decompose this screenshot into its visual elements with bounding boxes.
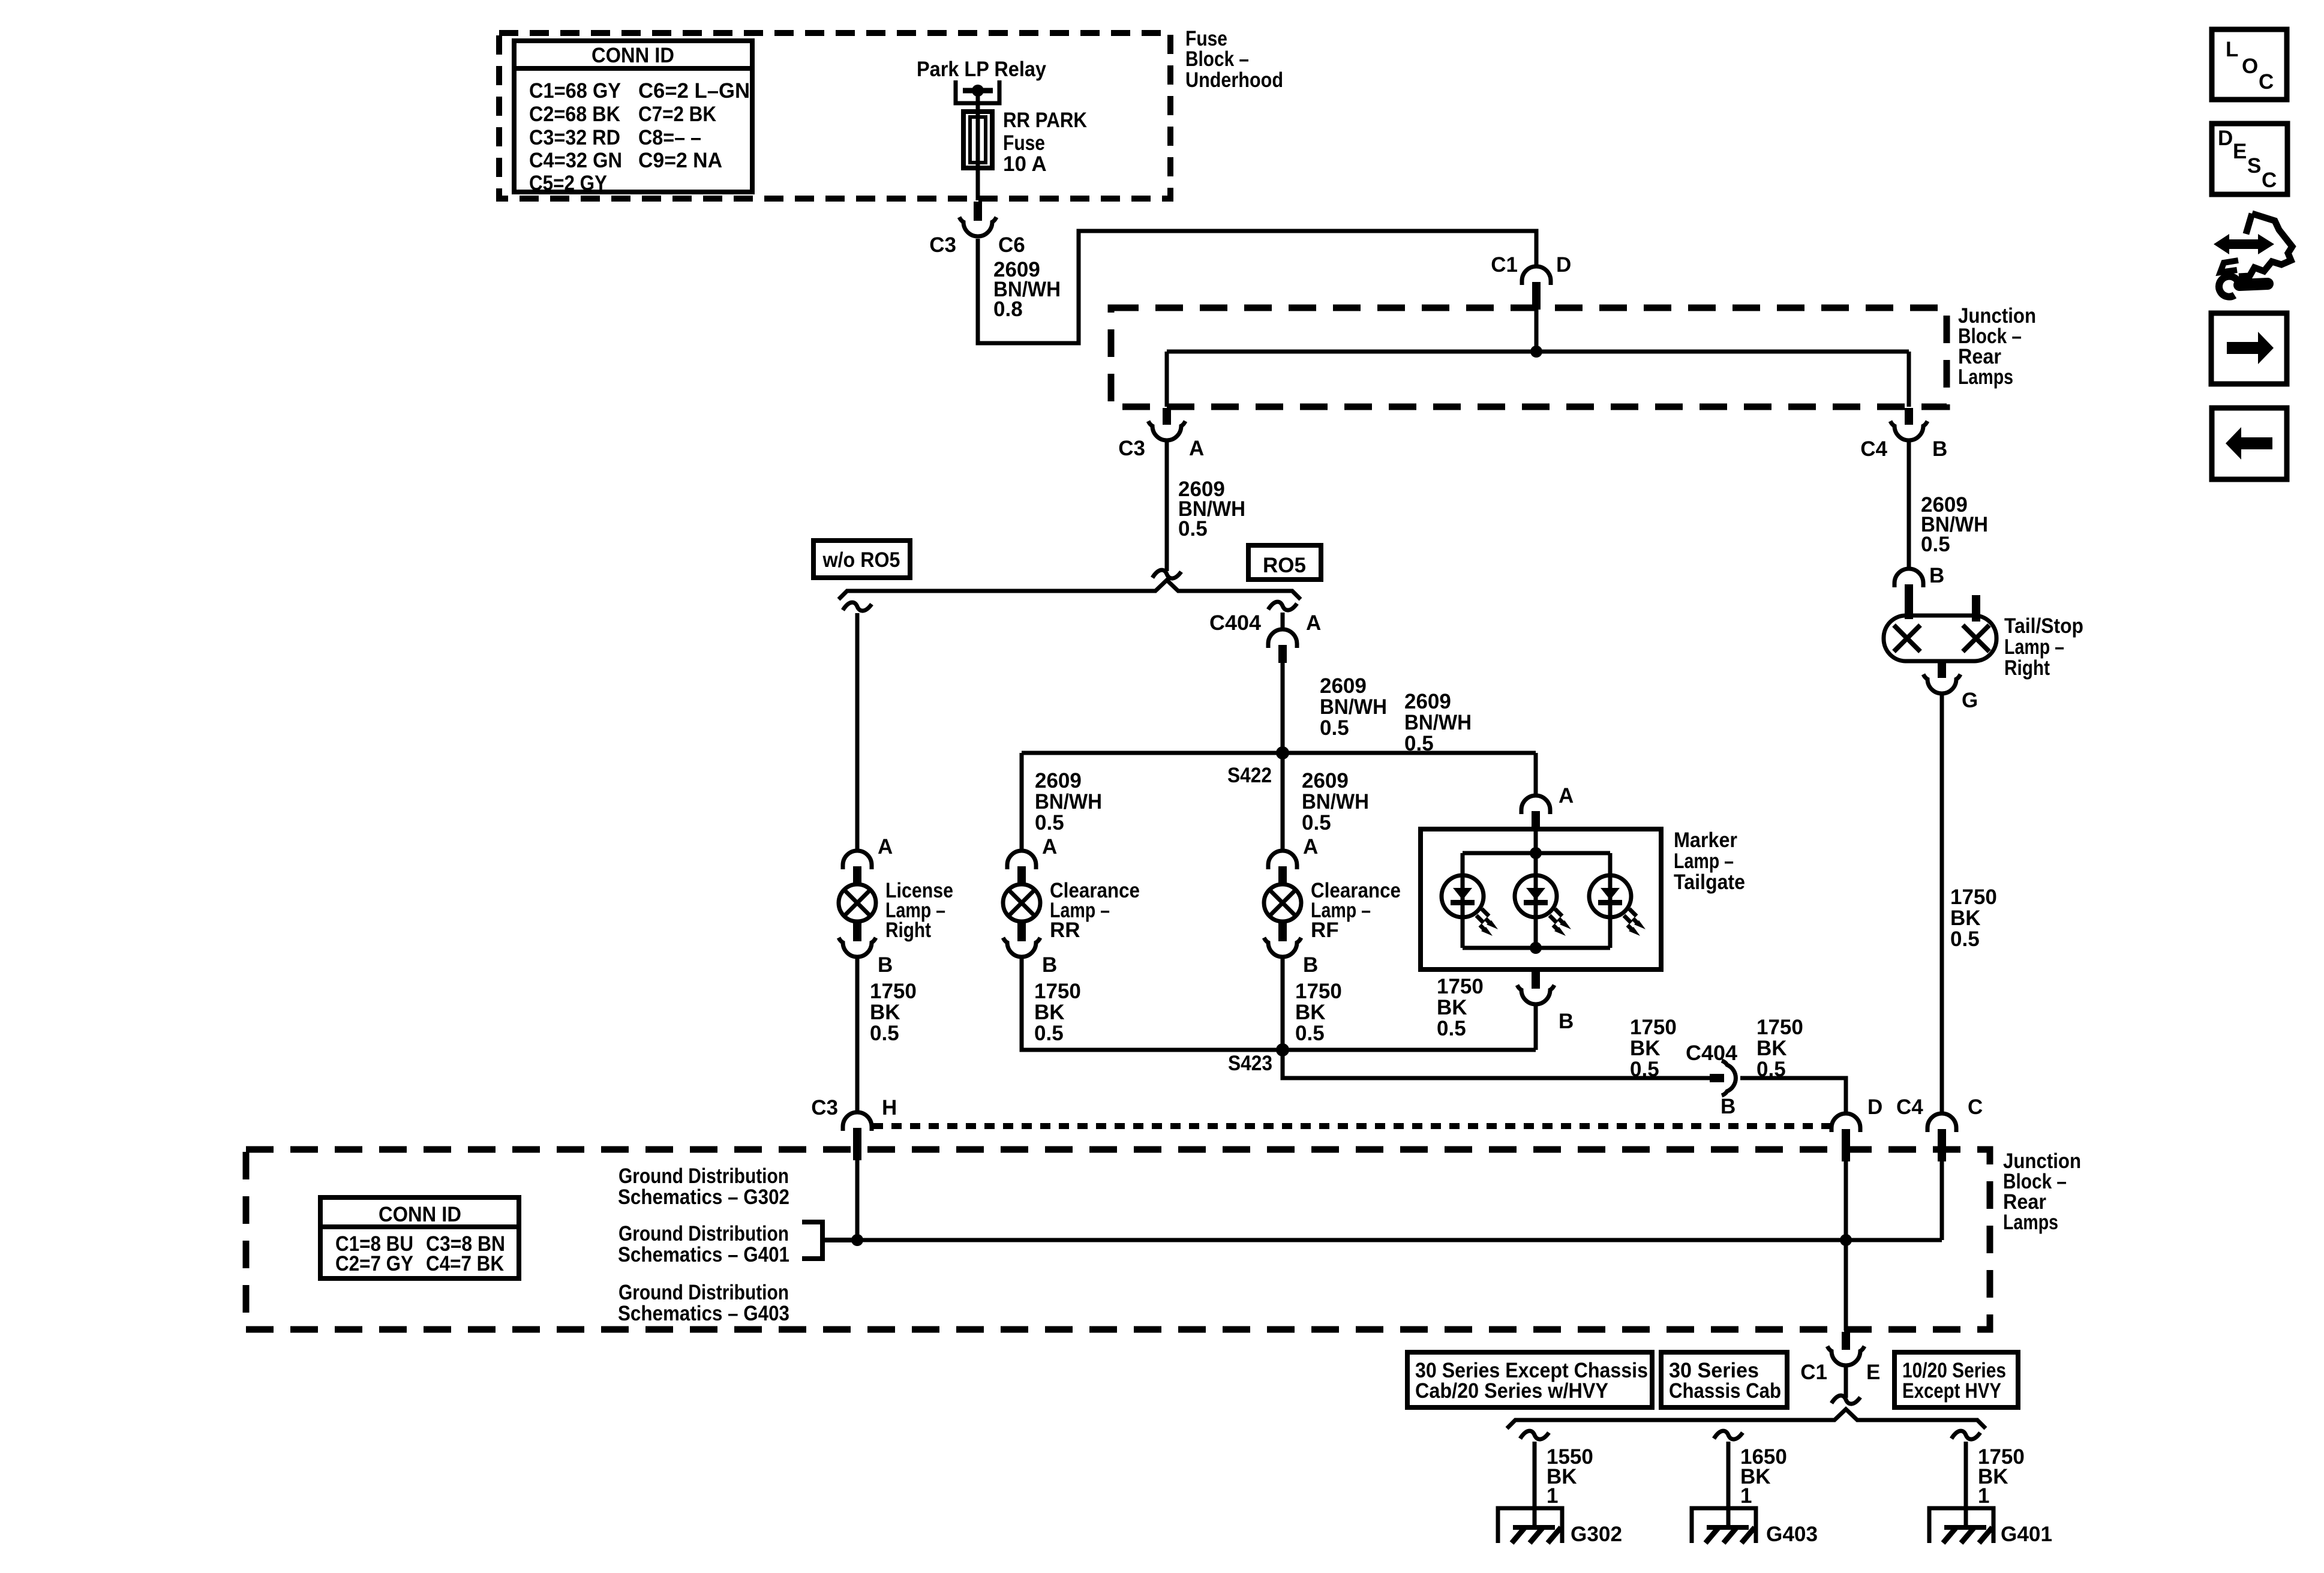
svg-text:C7=2 BK: C7=2 BK <box>638 103 716 126</box>
connector B arch <box>1894 569 1923 587</box>
svg-text:1750: 1750 <box>870 980 917 1003</box>
svg-text:S: S <box>2247 154 2261 178</box>
svg-text:BN/WH: BN/WH <box>1320 695 1387 719</box>
svg-text:B: B <box>1303 953 1318 977</box>
svg-text:D: D <box>1556 253 1571 277</box>
ground distribution G403 note <box>618 1281 789 1325</box>
service info icon (arrows wrench) <box>2214 214 2292 297</box>
wire label 2609 BN/WH 0.5 (marker feed) <box>1404 690 1472 755</box>
svg-text:BK: BK <box>1034 1001 1065 1024</box>
connector C3/A cup <box>1148 421 1185 440</box>
connector B cup <box>1517 985 1554 1004</box>
node bottom <box>1530 942 1542 954</box>
svg-text:CONN ID: CONN ID <box>591 44 674 67</box>
wire bus left leg to A pin <box>1165 352 1169 407</box>
svg-text:1: 1 <box>1978 1484 1989 1508</box>
svg-text:BK: BK <box>1295 1001 1326 1024</box>
marker lamp box <box>1421 829 1661 969</box>
wire marker feed <box>1534 753 1538 795</box>
connector B cup <box>839 938 876 957</box>
wire D pin into junction block <box>1535 310 1539 352</box>
svg-text:BN/WH: BN/WH <box>1035 790 1102 813</box>
w/o RO5 option box <box>813 541 910 578</box>
svg-text:0.5: 0.5 <box>1921 533 1950 556</box>
lamp label <box>885 879 953 942</box>
pin stub below <box>853 922 861 941</box>
node top <box>1530 847 1542 859</box>
option box 10/20 series except HVY <box>1894 1352 2018 1407</box>
wire C404/B to D pin <box>1740 1078 1846 1113</box>
svg-text:BK: BK <box>870 1001 900 1024</box>
ground G403 <box>1692 1508 1756 1543</box>
svg-text:Park LP Relay: Park LP Relay <box>917 58 1046 81</box>
pin stub below <box>1278 922 1287 941</box>
svg-text:RR: RR <box>1050 918 1080 942</box>
svg-text:1750: 1750 <box>1950 885 1997 909</box>
connector D arch <box>1831 1113 1860 1132</box>
pin stub <box>1905 584 1913 619</box>
wire RR B to S423 <box>1022 957 1283 1050</box>
wire label 1750 BK 0.5 <box>1295 980 1342 1045</box>
svg-text:2609: 2609 <box>1035 769 1082 792</box>
connector C arch <box>1927 1113 1956 1132</box>
svg-text:C1: C1 <box>1800 1361 1827 1384</box>
wire to ground <box>1727 1442 1731 1508</box>
svg-text:1750: 1750 <box>1756 1016 1803 1039</box>
DESC icon <box>2212 124 2287 194</box>
option brace w/o RO5 / RO5 <box>839 580 1301 599</box>
svg-text:0.5: 0.5 <box>1035 811 1064 834</box>
svg-text:C4: C4 <box>1896 1095 1923 1119</box>
svg-text:1750: 1750 <box>1630 1016 1677 1039</box>
connector C404/A arch <box>1268 629 1297 648</box>
connector pin stub (fuse block out) <box>974 202 982 221</box>
connector C3/H arch <box>843 1112 872 1131</box>
svg-text:10 A: 10 A <box>1003 152 1047 176</box>
wire C404/A to S422 <box>1281 663 1285 753</box>
svg-text:A: A <box>1189 437 1204 460</box>
svg-text:CONN ID: CONN ID <box>379 1203 461 1226</box>
pin stub <box>1532 811 1540 830</box>
svg-text:H: H <box>882 1096 897 1119</box>
GROUND BRANCH G302 <box>1498 1431 1622 1546</box>
svg-text:B: B <box>878 953 893 977</box>
svg-text:C3: C3 <box>811 1096 838 1119</box>
pin stub bottom <box>1938 660 1946 678</box>
svg-text:Except HVY: Except HVY <box>1902 1379 2001 1403</box>
svg-text:BN/WH: BN/WH <box>1404 711 1472 734</box>
svg-text:0.5: 0.5 <box>870 1022 899 1045</box>
svg-text:E: E <box>1866 1361 1880 1384</box>
pin stub C3/H <box>853 1128 861 1160</box>
svg-text:0.5: 0.5 <box>1756 1058 1786 1081</box>
svg-text:BN/WH: BN/WH <box>1302 790 1369 813</box>
svg-text:Lamp –: Lamp – <box>1674 849 1734 873</box>
svg-text:2609: 2609 <box>1302 769 1349 792</box>
wire label 2609 BN/WH 0.5 (RR) <box>1035 769 1102 834</box>
svg-text:2609: 2609 <box>1404 690 1451 713</box>
wire H pin to G401 bus <box>855 1160 860 1240</box>
svg-text:Ground Distribution: Ground Distribution <box>618 1281 789 1304</box>
splice S423 <box>1276 1043 1289 1056</box>
pin stub <box>1017 866 1026 885</box>
svg-text:C8=– –: C8=– – <box>638 126 701 149</box>
svg-text:2609: 2609 <box>1320 674 1367 698</box>
wire to ground <box>1964 1442 1968 1508</box>
connector C4/B cup <box>1890 421 1927 440</box>
wire S422 to clearance RR <box>1020 753 1024 851</box>
wire RF B to S423 <box>1281 957 1285 1050</box>
svg-text:1750: 1750 <box>1295 980 1342 1003</box>
ground G302 <box>1498 1508 1562 1543</box>
svg-text:Lamps: Lamps <box>1958 365 2013 389</box>
svg-text:BK: BK <box>1950 906 1981 930</box>
GROUND BRANCH G401 <box>1929 1431 2052 1546</box>
svg-text:B: B <box>1932 437 1947 461</box>
wire S422 bus <box>1022 751 1536 755</box>
svg-text:C1: C1 <box>1491 253 1518 277</box>
svg-text:C6=2 L–GN: C6=2 L–GN <box>638 79 750 103</box>
lamp symbol license lamp right <box>839 884 876 921</box>
wire break curl (right branch) <box>1268 602 1297 610</box>
CONN ID table (fuse block) <box>514 41 752 195</box>
svg-text:0.5: 0.5 <box>1630 1058 1659 1081</box>
svg-text:A: A <box>1303 835 1318 858</box>
svg-text:C5=2 GY: C5=2 GY <box>529 172 607 195</box>
wire C pin down <box>1940 1161 1944 1240</box>
forward arrow icon <box>2211 313 2287 384</box>
LED 1 <box>1442 875 1498 936</box>
ground option brace <box>1507 1409 1986 1428</box>
svg-text:C4: C4 <box>1860 437 1887 461</box>
svg-text:0.8: 0.8 <box>993 298 1023 321</box>
G401 ground bus <box>857 1238 1942 1242</box>
node H/G401 <box>851 1234 863 1246</box>
RO5 option box <box>1248 545 1321 580</box>
svg-text:Chassis Cab: Chassis Cab <box>1669 1379 1781 1403</box>
connector C1/D arch <box>1522 266 1551 285</box>
connector G cup <box>1923 674 1960 694</box>
svg-text:B: B <box>1721 1095 1736 1118</box>
wire E to brace <box>1844 1365 1848 1398</box>
fuse block underhood dashed box <box>499 33 1170 199</box>
wire break curl (left branch) <box>843 602 872 611</box>
svg-text:A: A <box>1042 835 1057 858</box>
svg-text:0.5: 0.5 <box>1320 716 1349 740</box>
connector B cup <box>1003 938 1040 957</box>
svg-text:G403: G403 <box>1766 1523 1818 1546</box>
svg-text:E: E <box>2233 140 2247 163</box>
CONN ID table (junction block) <box>320 1197 519 1278</box>
wire C4/B to lamp <box>1907 440 1911 569</box>
svg-text:D: D <box>2218 127 2233 150</box>
wire bus right leg to B pin <box>1907 352 1911 407</box>
junction block bottom label <box>2003 1149 2081 1234</box>
svg-text:0.5: 0.5 <box>1034 1022 1064 1045</box>
connector A arch <box>843 851 872 869</box>
LOC icon <box>2212 29 2287 100</box>
pin stub C4/B <box>1905 408 1913 425</box>
pin stub C404/B <box>1710 1074 1724 1082</box>
svg-text:Cab/20 Series w/HVY: Cab/20 Series w/HVY <box>1415 1379 1608 1403</box>
tail/stop lamp body <box>1884 616 1996 661</box>
svg-text:Fuse: Fuse <box>1003 131 1045 155</box>
svg-text:C: C <box>2262 169 2277 192</box>
pin stub C <box>1938 1129 1946 1161</box>
svg-text:Ground Distribution: Ground Distribution <box>618 1164 789 1188</box>
svg-text:C4=7 BK: C4=7 BK <box>426 1252 504 1275</box>
svg-text:C6: C6 <box>998 233 1025 257</box>
junction block top label <box>1958 304 2036 389</box>
wire label 1750 BK 0.5 <box>1756 1016 1803 1081</box>
svg-text:C404: C404 <box>1686 1041 1738 1065</box>
wire to C404/A <box>1281 613 1285 629</box>
wire label 1750 BK 0.5 <box>1034 980 1081 1045</box>
wire marker B to S423 bus <box>1534 1004 1538 1050</box>
svg-text:B: B <box>1559 1010 1574 1033</box>
svg-text:A: A <box>878 835 893 858</box>
svg-text:Marker: Marker <box>1674 828 1737 852</box>
svg-text:Schematics – G403: Schematics – G403 <box>618 1302 789 1325</box>
svg-text:C9=2 NA: C9=2 NA <box>638 149 722 172</box>
wire A drop to option brace <box>1165 440 1169 571</box>
wire label 1750 BK 0.5 (marker) <box>1437 975 1484 1040</box>
svg-text:0.5: 0.5 <box>1178 517 1208 541</box>
svg-text:1: 1 <box>1740 1484 1752 1508</box>
svg-text:0.5: 0.5 <box>1404 732 1434 755</box>
svg-text:1750: 1750 <box>1034 980 1081 1003</box>
svg-text:C1=68 GY: C1=68 GY <box>529 79 621 103</box>
svg-text:BK: BK <box>1437 996 1467 1019</box>
connector C1/E cup <box>1827 1346 1864 1365</box>
wire label 1750 BK 0.5 <box>1630 1016 1677 1081</box>
svg-text:Tailgate: Tailgate <box>1674 870 1745 894</box>
second filament pin <box>1972 595 1980 622</box>
lamp label <box>1050 879 1140 942</box>
option dotted wire C3/H to D <box>873 1123 1830 1129</box>
svg-text:0.5: 0.5 <box>1302 811 1331 834</box>
svg-text:Right: Right <box>885 918 931 942</box>
svg-text:Underhood: Underhood <box>1185 68 1283 92</box>
bus wire inside junction block <box>1167 350 1909 354</box>
LED 3 <box>1589 875 1646 936</box>
svg-text:A: A <box>1306 611 1321 635</box>
wire to ground <box>1533 1442 1537 1508</box>
connector C3/C6 cup <box>959 217 996 236</box>
node D/G401 <box>1840 1234 1852 1246</box>
junction block rear lamps (top) dashed box <box>1111 308 1947 407</box>
option box 30 series chassis cab <box>1661 1352 1787 1407</box>
lamp label <box>2004 614 2083 680</box>
svg-text:D: D <box>1867 1095 1882 1119</box>
svg-text:B: B <box>1929 564 1944 587</box>
splice S422 <box>1276 746 1289 760</box>
fuse block label <box>1185 27 1283 92</box>
svg-text:1: 1 <box>1547 1484 1558 1508</box>
svg-text:RO5: RO5 <box>1263 554 1306 577</box>
marker lamp bottom pin <box>1532 971 1540 989</box>
svg-text:RR PARK: RR PARK <box>1003 109 1087 132</box>
pin stub <box>1278 866 1287 885</box>
filament X right <box>1963 625 1989 652</box>
svg-text:G: G <box>1962 689 1978 712</box>
lamp label <box>1311 879 1401 942</box>
svg-text:RF: RF <box>1311 918 1339 942</box>
ground distribution G401 note <box>618 1222 789 1266</box>
connector A arch <box>1007 851 1036 869</box>
pin stub C404/A <box>1278 645 1287 663</box>
svg-text:L: L <box>2226 38 2238 61</box>
fuse label <box>1003 109 1087 176</box>
pin stub C1/E <box>1842 1332 1850 1350</box>
svg-text:0.5: 0.5 <box>1295 1022 1325 1045</box>
svg-text:0.5: 0.5 <box>1950 927 1980 951</box>
wire label 2609 BN/WH 0.8 <box>993 258 1061 321</box>
svg-text:C404: C404 <box>1209 611 1262 635</box>
wire C6 to C1/D (jog) <box>978 231 1536 343</box>
connector C404/B cup <box>1722 1061 1736 1095</box>
svg-text:Lamp –: Lamp – <box>2004 635 2064 659</box>
LED parallel rails <box>1463 853 1610 948</box>
svg-text:Right: Right <box>2004 656 2050 680</box>
wire label 1750 BK 0.5 <box>870 980 917 1045</box>
wire label 1750 BK 0.5 <box>1950 885 1997 951</box>
option box 30 series except chassis cab <box>1407 1352 1652 1407</box>
pin stub C1/D <box>1532 282 1541 310</box>
wire break curl <box>1831 1395 1860 1404</box>
svg-text:C: C <box>2259 70 2274 94</box>
marker lamp label <box>1674 828 1745 894</box>
svg-text:w/o RO5: w/o RO5 <box>822 548 900 572</box>
relay contact terminal <box>956 80 999 103</box>
svg-text:C3=32 RD: C3=32 RD <box>529 126 620 149</box>
wire S422 to clearance RF <box>1281 753 1285 851</box>
ground G401 <box>1929 1508 1993 1543</box>
svg-text:1750: 1750 <box>1437 975 1484 998</box>
G401 note bracket <box>802 1222 857 1259</box>
pin stub D <box>1842 1129 1850 1161</box>
svg-text:Schematics – G302: Schematics – G302 <box>618 1185 789 1209</box>
wire label 2609 BN/WH 0.5 (RF) <box>1302 769 1369 834</box>
pin stub below <box>1017 922 1026 941</box>
wire into LED network <box>1534 830 1538 853</box>
wire D to C1/E <box>1844 1240 1848 1331</box>
node splice on bus <box>1530 346 1542 358</box>
fuse RR PARK 10A <box>963 112 992 168</box>
svg-text:S423: S423 <box>1228 1052 1272 1075</box>
back arrow icon <box>2212 408 2287 479</box>
pin stub <box>853 866 861 885</box>
S423 bus to marker corner <box>1283 1048 1536 1052</box>
GROUND BRANCH G403 <box>1692 1431 1818 1546</box>
wire break curl <box>1714 1431 1743 1439</box>
svg-text:Tail/Stop: Tail/Stop <box>2004 614 2083 638</box>
wire break curl <box>1951 1431 1980 1439</box>
svg-text:C2=7 GY: C2=7 GY <box>335 1252 413 1275</box>
wire fuse to connector C3/C6 <box>976 168 980 200</box>
svg-text:BK: BK <box>1630 1037 1661 1060</box>
wire break curl <box>1520 1431 1549 1439</box>
svg-text:Block –: Block – <box>1185 47 1249 71</box>
svg-text:Lamps: Lamps <box>2003 1211 2058 1234</box>
pin stub C3/A <box>1163 408 1171 425</box>
svg-text:C2=68 BK: C2=68 BK <box>529 103 620 126</box>
lamp symbol clearance lamp RR <box>1003 884 1040 921</box>
wire break curl <box>1152 570 1181 578</box>
connector A arch <box>1521 795 1550 814</box>
svg-text:C3: C3 <box>929 233 956 257</box>
svg-text:G401: G401 <box>2001 1523 2052 1546</box>
wire relay to fuse <box>976 91 980 114</box>
middle branch wire <box>1534 853 1538 948</box>
svg-text:A: A <box>1559 784 1574 807</box>
lamp symbol clearance lamp RF <box>1264 884 1301 921</box>
wire label 2609 BN/WH 0.5 (right drop) <box>1921 493 1988 556</box>
connector B cup <box>1264 938 1301 957</box>
wire license B to C3/H <box>855 957 860 1112</box>
svg-text:G302: G302 <box>1571 1523 1622 1546</box>
junction block rear lamps (bottom) dashed box <box>246 1149 1990 1329</box>
svg-text:BK: BK <box>1756 1037 1787 1060</box>
connector A arch <box>1268 851 1297 869</box>
wire label 2609 BN/WH 0.5 <box>1320 674 1387 740</box>
svg-text:B: B <box>1042 953 1057 977</box>
svg-text:O: O <box>2242 55 2258 78</box>
LED 2 <box>1515 875 1571 936</box>
wire label 2609 BN/WH 0.5 (left drop) <box>1178 478 1245 541</box>
filament X left <box>1894 625 1920 652</box>
svg-text:Ground Distribution: Ground Distribution <box>618 1222 789 1245</box>
svg-text:C3: C3 <box>1118 437 1145 460</box>
wire left branch down to license lamp <box>855 613 860 851</box>
svg-text:Schematics – G401: Schematics – G401 <box>618 1243 789 1266</box>
svg-text:C4=32 GN: C4=32 GN <box>529 149 622 172</box>
wire S423 down and right to C404/B <box>1283 1050 1710 1078</box>
svg-text:S422: S422 <box>1227 764 1272 787</box>
svg-text:0.5: 0.5 <box>1437 1017 1466 1040</box>
ground distribution G302 note <box>618 1164 789 1209</box>
wire G to C pin <box>1940 694 1944 1113</box>
svg-text:C: C <box>1968 1095 1983 1119</box>
wire D pin down <box>1844 1161 1848 1240</box>
